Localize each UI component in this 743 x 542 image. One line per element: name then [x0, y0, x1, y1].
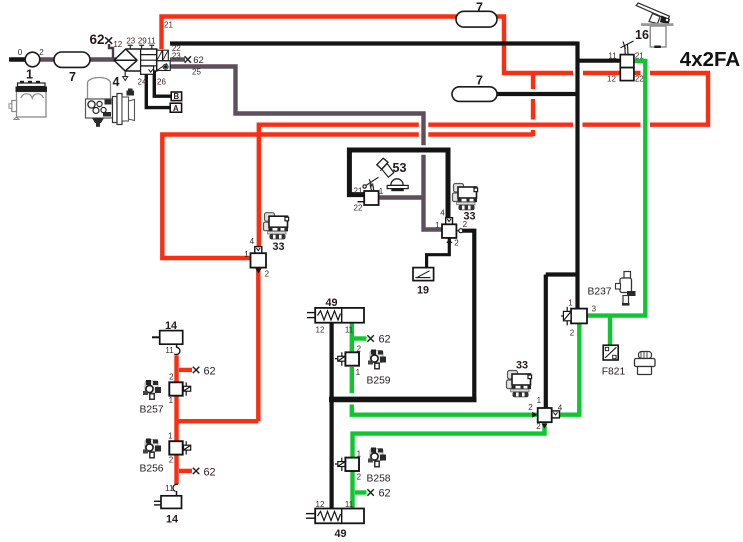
- svg-text:12: 12: [113, 40, 122, 49]
- svg-text:21: 21: [164, 21, 173, 30]
- svg-text:53: 53: [393, 161, 407, 175]
- svg-text:49: 49: [325, 297, 337, 309]
- svg-text:4: 4: [440, 209, 445, 218]
- svg-text:7: 7: [476, 74, 483, 88]
- svg-text:11: 11: [345, 325, 354, 334]
- svg-text:26: 26: [157, 78, 166, 87]
- svg-text:16: 16: [635, 28, 649, 42]
- svg-text:1: 1: [568, 299, 573, 308]
- svg-text:12: 12: [607, 75, 616, 84]
- svg-text:25: 25: [192, 68, 201, 77]
- svg-text:B258: B258: [366, 473, 390, 484]
- svg-text:11: 11: [165, 346, 174, 355]
- svg-text:21: 21: [635, 52, 644, 61]
- svg-text:2: 2: [570, 329, 575, 338]
- svg-text:2: 2: [357, 344, 362, 353]
- svg-text:62: 62: [89, 32, 104, 47]
- svg-text:1: 1: [537, 396, 542, 405]
- svg-text:2: 2: [536, 422, 541, 431]
- svg-text:4x2FA: 4x2FA: [680, 48, 741, 71]
- svg-text:4: 4: [113, 75, 120, 89]
- svg-text:33: 33: [516, 360, 528, 372]
- svg-text:B259: B259: [366, 375, 390, 386]
- svg-text:23: 23: [126, 37, 135, 46]
- svg-text:62: 62: [203, 466, 215, 478]
- svg-text:A: A: [173, 104, 179, 113]
- svg-text:62: 62: [378, 487, 390, 499]
- svg-text:1: 1: [168, 432, 173, 441]
- svg-text:B237: B237: [587, 287, 611, 298]
- svg-text:11: 11: [165, 484, 174, 493]
- svg-text:14: 14: [165, 320, 177, 332]
- svg-text:21: 21: [354, 186, 363, 195]
- svg-text:2: 2: [463, 220, 468, 229]
- svg-text:1: 1: [169, 396, 174, 405]
- svg-text:1: 1: [435, 221, 440, 230]
- svg-text:62: 62: [193, 54, 203, 65]
- svg-text:2: 2: [454, 239, 459, 248]
- svg-text:14: 14: [166, 514, 178, 526]
- svg-text:1: 1: [26, 68, 33, 82]
- svg-text:29: 29: [138, 37, 147, 46]
- svg-text:B257: B257: [139, 405, 163, 416]
- svg-text:2: 2: [169, 372, 174, 381]
- svg-text:7: 7: [476, 1, 483, 15]
- svg-text:12: 12: [316, 500, 325, 509]
- svg-text:49: 49: [334, 528, 346, 540]
- svg-text:12: 12: [316, 325, 325, 334]
- svg-text:11: 11: [147, 37, 156, 46]
- svg-text:1: 1: [357, 450, 362, 459]
- svg-text:1: 1: [244, 250, 249, 259]
- svg-text:24: 24: [138, 78, 147, 87]
- svg-text:F821: F821: [602, 367, 626, 378]
- svg-text:62: 62: [203, 365, 215, 377]
- svg-text:11: 11: [345, 500, 354, 509]
- svg-text:B256: B256: [139, 464, 163, 475]
- svg-text:11: 11: [608, 52, 617, 61]
- svg-text:19: 19: [417, 285, 429, 297]
- svg-text:0: 0: [18, 48, 23, 57]
- svg-text:2: 2: [357, 473, 362, 482]
- svg-text:23: 23: [172, 52, 181, 61]
- svg-text:2: 2: [169, 456, 174, 465]
- svg-text:4: 4: [250, 237, 255, 246]
- svg-text:2: 2: [265, 270, 270, 279]
- svg-text:1: 1: [356, 368, 361, 377]
- svg-text:4: 4: [558, 404, 563, 413]
- svg-text:22: 22: [635, 75, 644, 84]
- svg-text:2: 2: [528, 403, 533, 412]
- svg-text:62: 62: [378, 333, 390, 345]
- svg-text:22: 22: [354, 203, 363, 212]
- svg-text:33: 33: [272, 241, 284, 253]
- svg-text:7: 7: [69, 70, 76, 84]
- svg-text:B: B: [173, 92, 179, 101]
- svg-text:1: 1: [379, 187, 384, 196]
- svg-text:2: 2: [39, 48, 44, 57]
- svg-text:3: 3: [592, 305, 597, 314]
